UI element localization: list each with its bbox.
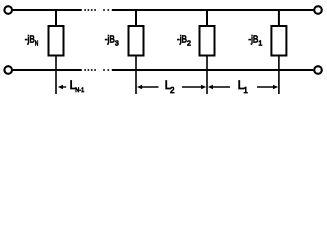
svg-text:-jB: -jB [248, 35, 258, 46]
susceptance B2 top lead wire [206, 10, 208, 26]
dimension L1 right tail wire [257, 86, 274, 88]
wire top rail dotted break [84, 9, 109, 11]
svg-text:1: 1 [258, 41, 262, 48]
label L1 [238, 80, 249, 95]
susceptance B1 bottom lead and dimension tick [278, 57, 280, 95]
susceptance BN top lead wire [55, 10, 57, 26]
svg-text:N: N [35, 41, 38, 48]
dimension L1 left tail wire [213, 86, 231, 88]
label L2 [165, 80, 175, 95]
svg-text:N-1: N-1 [75, 87, 84, 94]
dimension LN-1 left arrowhead [58, 85, 63, 89]
label -jB2 [177, 35, 191, 48]
dimension L2 right tail wire [182, 86, 202, 88]
susceptance B1 top lead wire [278, 10, 280, 26]
svg-text:2: 2 [170, 86, 175, 95]
label LN-1 [70, 80, 85, 94]
port terminal bottom-left [4, 66, 12, 74]
susceptance B3 element box [129, 26, 144, 56]
port terminal top-left [4, 6, 12, 14]
dimension L2 left arrowhead [137, 85, 142, 89]
svg-text:-jB: -jB [177, 35, 187, 46]
susceptance B2 element box [200, 26, 215, 56]
dimension L2 left tail wire [142, 86, 159, 88]
dimension L1 right arrowhead [273, 85, 278, 89]
svg-text:-jB: -jB [105, 35, 115, 46]
wire top rail right segment [112, 9, 314, 11]
dimension L1 left arrowhead [208, 85, 213, 89]
svg-text:2: 2 [187, 41, 191, 48]
wire bottom rail right segment [112, 69, 314, 71]
dimension LN-1 tail wire [63, 86, 67, 88]
susceptance BN bottom lead and dimension tick [55, 57, 57, 95]
susceptance B3 top lead wire [135, 10, 137, 26]
susceptance B1 element box [271, 26, 286, 56]
wire top rail left segment [13, 9, 82, 11]
label -jBN [25, 35, 39, 48]
wire bottom rail left segment [13, 69, 82, 71]
dimension L2 right arrowhead [201, 85, 206, 89]
svg-text:1: 1 [243, 86, 248, 95]
label -jB3 [105, 35, 119, 48]
svg-text:3: 3 [115, 41, 119, 48]
susceptance B2 bottom lead and dimension tick [206, 57, 208, 95]
port terminal top-right [314, 6, 322, 14]
port terminal bottom-right [314, 66, 322, 74]
susceptance BN element box [49, 26, 64, 56]
svg-text:-jB: -jB [25, 35, 35, 46]
label -jB1 [248, 35, 262, 48]
wire bottom rail dotted break [84, 69, 109, 71]
susceptance B3 bottom lead and dimension tick [135, 57, 137, 95]
